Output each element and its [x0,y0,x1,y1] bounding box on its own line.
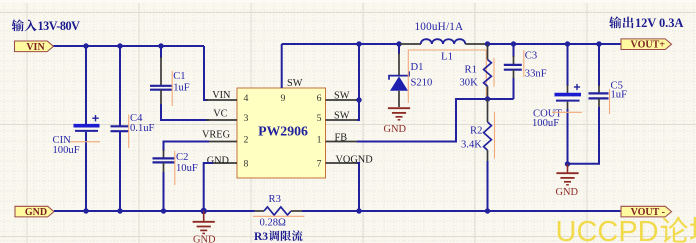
ground symbol main [193,211,216,243]
svg-text:VIN: VIN [26,42,45,53]
capacitor C1 1uF [150,46,209,120]
pin number 8 [244,159,249,170]
svg-text:10uF: 10uF [176,163,198,174]
label COUT [533,108,562,119]
svg-text:2: 2 [244,135,249,146]
capacitor COUT 100uF [555,44,582,164]
svg-text:1uF: 1uF [611,90,628,101]
label PW2906 [258,124,308,139]
svg-text:GND: GND [193,234,216,243]
pin name FB [335,132,348,143]
pin 6 SW stub [326,99,358,101]
svg-text:R3: R3 [254,231,268,243]
value R2 3.4K [461,139,482,150]
svg-text:100uF: 100uF [53,145,80,156]
pin 1 FB stub [326,141,358,143]
note R3 current limit [254,230,303,243]
junction at C4 top [117,43,122,48]
svg-text:SW: SW [287,78,303,89]
pin number 6 [317,93,322,104]
capacitor C4 0.1uF [111,46,129,211]
pin 4 VIN stub [206,99,237,101]
pin 3 VC stub [206,119,237,121]
value COUT 100uF [532,118,559,129]
wire ground rail right [302,210,621,212]
capacitor CIN 100uF [74,46,100,211]
svg-text:8: 8 [244,159,249,170]
label C2 [176,152,188,163]
svg-text:VIN: VIN [212,90,231,101]
title input 13V-80V [12,19,81,33]
port flag VOUT+ [621,39,672,51]
svg-text:C2: C2 [176,152,188,163]
value C1 1uF [173,82,190,93]
value CIN 100uF [53,145,80,156]
wire FB node [357,99,514,142]
svg-text:0.28Ω: 0.28Ω [260,218,287,229]
svg-text:R3: R3 [269,194,281,205]
orange tick C2 [174,151,176,185]
svg-text:GND: GND [207,155,230,166]
resistor R2 3.4K [484,99,492,211]
pin 9 SW wire [281,44,283,88]
pin number 7 [317,159,322,170]
wire GND pin drop [204,163,213,211]
wire SW drop to pins [357,44,359,120]
title output 12V 0.3A [609,16,683,30]
junction D1 top [396,41,401,46]
orange tick R1 [493,58,495,87]
pin number 2 [244,135,249,146]
junction C4 bottom [117,208,122,213]
pin 8 GND stub [212,162,237,164]
value C2 10uF [176,163,198,174]
junction COUT top [565,41,570,46]
wire VOGND drop [357,163,359,211]
svg-text:R1: R1 [465,64,477,75]
junction at C1 top [158,43,163,48]
svg-text:5: 5 [317,113,322,124]
value D1 S210 [411,78,433,89]
svg-text:GND: GND [25,207,47,218]
top band [0,0,696,3]
ground symbol output [556,164,579,198]
wire input rail VIN [54,45,205,47]
label C3 [525,50,537,61]
svg-text:100uH/1A: 100uH/1A [415,21,464,33]
junction FB R1 R2 [485,96,490,101]
label C5 [611,80,623,91]
inductor L1 100uH [400,39,488,44]
svg-text:C3: C3 [525,50,537,61]
resistor R1 30K [484,44,492,99]
svg-text:4: 4 [244,93,249,104]
orange tick C1 [171,71,173,106]
svg-text:D1: D1 [411,62,424,73]
wire VIN drop to pin 4 [204,46,208,100]
pin number 5 [317,113,322,124]
svg-text:9: 9 [281,93,286,104]
pin number 4 [244,93,249,104]
wire output rail [488,43,622,45]
pin name VIN [212,90,231,101]
svg-text:12V 0.3A: 12V 0.3A [635,16,683,30]
junction C2 bottom [161,208,166,213]
label CIN [53,135,72,146]
junction VOGND [356,208,361,213]
svg-text:R2: R2 [470,126,482,137]
svg-text:3.4K: 3.4K [461,139,482,150]
port flag VIN [15,41,54,53]
pin name VC [213,108,227,119]
svg-text:SW: SW [334,91,350,102]
label L1 [441,50,453,62]
pin 5 SW stub [326,119,358,121]
orange underline CIN [70,141,100,143]
junction GND node [201,208,207,214]
svg-text:13V-80V: 13V-80V [38,19,81,33]
junction at CIN top [83,43,88,48]
capacitor C5 1uF [568,44,609,164]
capacitor C2 10uF [153,150,175,211]
port flag GND [15,206,54,218]
value C5 1uF [611,90,628,101]
junction SW column [356,41,361,46]
svg-text:PW2906: PW2906 [258,124,308,139]
pin name SW5 [334,111,350,122]
value L1 100uH/1A [415,21,464,33]
label R3 [269,194,281,205]
watermark UCCPD forum [556,216,696,243]
pin name SW6 [334,91,350,102]
svg-text:6: 6 [317,93,322,104]
pin 7 VOGND stub [326,162,358,164]
orange underline COUT [552,111,582,113]
wire VREG to C2 [164,142,210,152]
label R2 [470,126,482,137]
pin number 1 [317,135,322,146]
svg-text:GND: GND [556,187,579,198]
svg-text:1uF: 1uF [173,82,190,93]
junction C5 top [596,41,601,46]
orange tick R2 [494,112,496,159]
wire ground rail left [54,210,255,212]
value C4 0.1uF [130,123,155,134]
svg-text:VOUT+: VOUT+ [631,40,666,51]
junction SW pin6 [356,97,361,102]
orange tick C5 [609,89,611,114]
pin name VOGND [336,154,374,165]
svg-text:SW: SW [334,111,350,122]
svg-text:VOGND: VOGND [336,154,374,165]
diode D1 S210 [389,44,409,107]
op-amp U1 PW2906 body [237,88,326,178]
orange underline R3 [253,215,305,217]
port flag VOUT- [621,206,672,218]
svg-text:UCCPD: UCCPD [556,216,659,243]
svg-text:1: 1 [317,135,322,146]
svg-text:0.1uF: 0.1uF [130,123,155,134]
label D1 [411,62,424,73]
wire SW rail [282,43,401,45]
orange box L1 [408,50,486,103]
svg-text:30K: 30K [460,78,479,89]
svg-text:100uF: 100uF [532,118,559,129]
ground symbol D1 [384,108,411,135]
pin number 3 [244,113,249,124]
svg-text:FB: FB [335,132,348,143]
value R3 0.28ohm [260,218,287,229]
svg-text:7: 7 [317,159,322,170]
svg-text:GND: GND [384,124,407,135]
orange tick C3 [523,50,525,77]
pin name SW top [287,78,303,89]
junction CIN bottom [83,208,88,213]
pin number 9 [281,93,286,104]
junction R2 bottom [485,208,490,213]
pin name GND [207,155,230,166]
junction R1 top [485,41,490,46]
label C4 [130,113,143,124]
resistor R3 0.28ohm [255,207,303,215]
value R1 30K [460,78,479,89]
junction C3 top [511,41,516,46]
label C1 [173,71,185,82]
pin 2 VREG stub [206,141,237,143]
svg-text:S210: S210 [411,78,433,89]
pin name VREG [202,129,231,140]
junction COUT bottom [565,161,570,166]
svg-text:33nF: 33nF [525,68,547,79]
svg-text:3: 3 [244,113,249,124]
svg-text:L1: L1 [441,50,453,62]
svg-text:VC: VC [213,108,227,119]
capacitor C3 33nF [504,44,522,99]
svg-text:VREG: VREG [202,129,231,140]
value C3 33nF [525,68,547,79]
label R1 [465,64,477,75]
svg-text:C1: C1 [173,71,185,82]
orange tick C4 [128,115,130,149]
